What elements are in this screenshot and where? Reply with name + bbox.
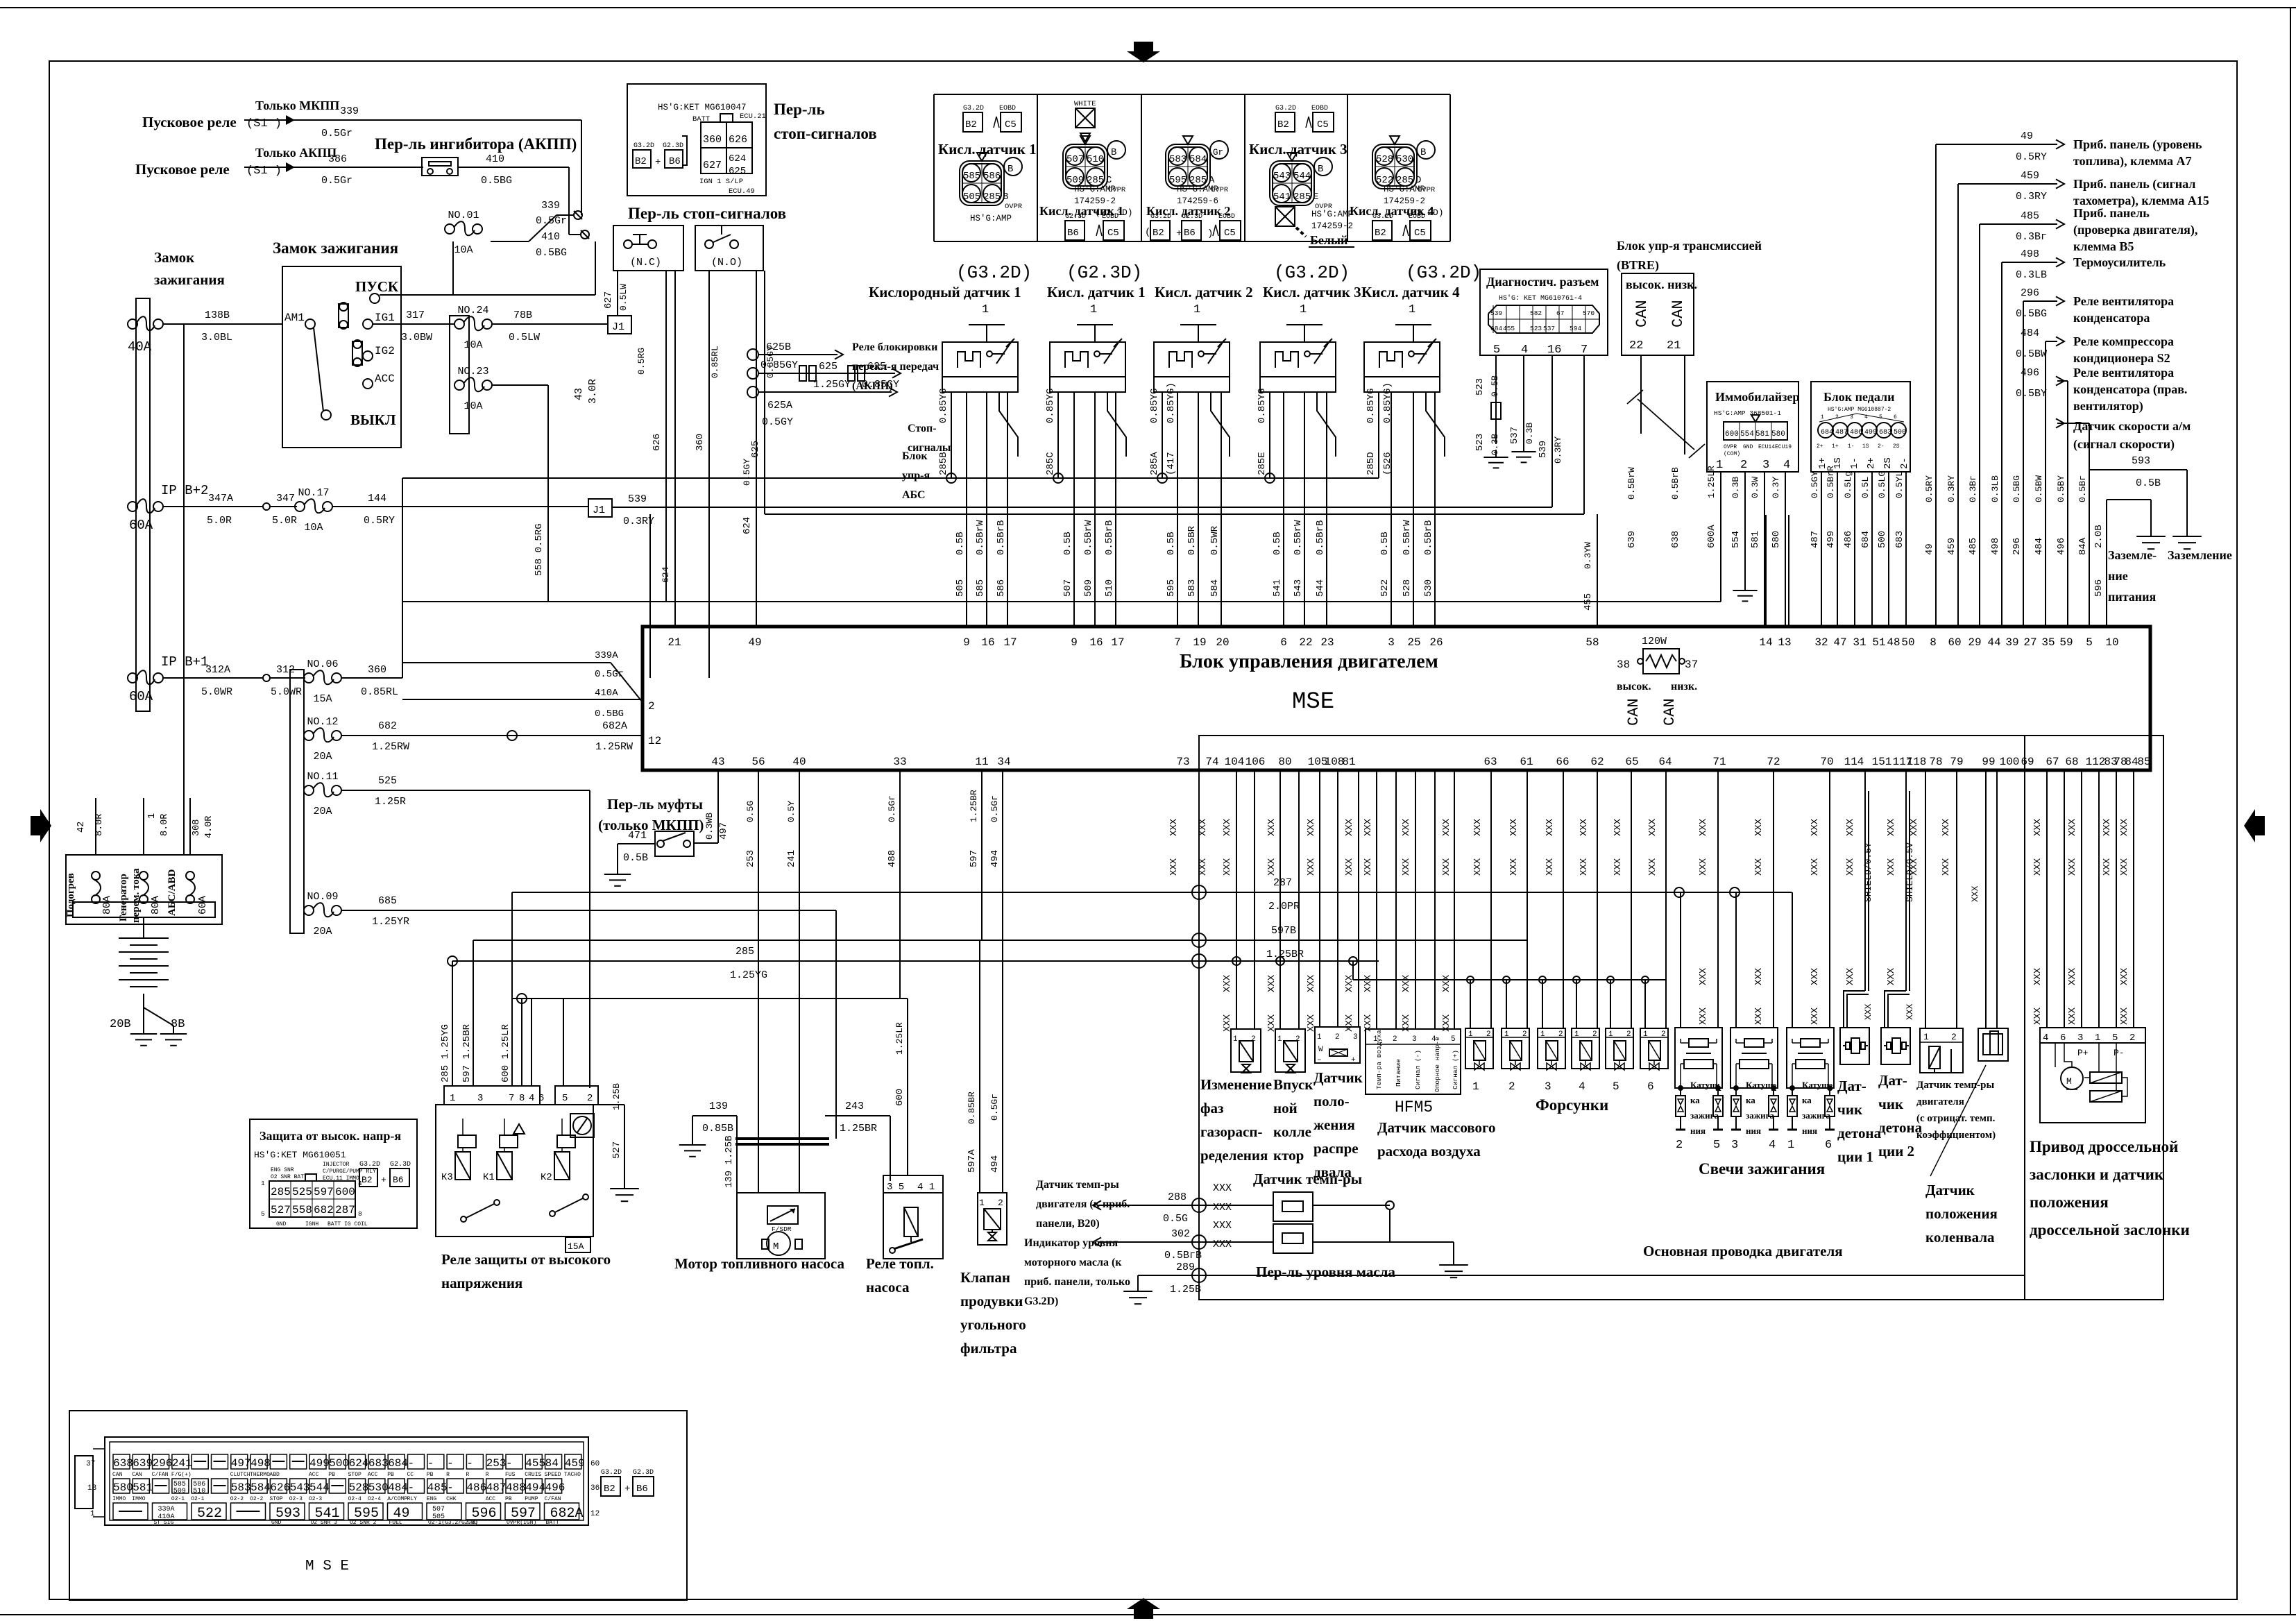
svg-text:347А: 347А [208,493,233,504]
svg-text:10: 10 [2105,636,2118,649]
svg-text:заслонки и датчик: заслонки и датчик [2030,1166,2164,1183]
svg-text:60: 60 [590,1460,599,1468]
svg-text:8.0R: 8.0R [94,814,105,836]
svg-text:1.25RW: 1.25RW [372,741,409,753]
svg-text:0.5BrW: 0.5BrW [1293,520,1304,555]
svg-text:0.85YG: 0.85YG [1045,389,1056,423]
label throttle [2030,1138,2190,1239]
svg-text:Катуш: Катуш [1802,1080,1829,1090]
svg-text:19: 19 [1193,636,1206,649]
svg-text:684: 684 [1490,325,1502,332]
svg-text:ECU14: ECU14 [1758,444,1775,450]
svg-text:питания: питания [2108,590,2157,604]
svg-text:0.3W: 0.3W [1750,477,1760,498]
svg-text:139: 139 [709,1101,728,1112]
label relay blokirovki [852,341,939,392]
wire 1 8.0R [144,798,170,855]
svg-text:3: 3 [2077,1033,2083,1044]
svg-text:539: 539 [1538,441,1549,458]
svg-text:ECU19: ECU19 [1775,444,1792,450]
svg-text:Р-: Р- [2114,1048,2125,1058]
svg-text:56: 56 [751,756,765,768]
svg-text:ABD: ABD [269,1472,280,1478]
label CAN high [1633,300,1651,328]
wire 626 [636,271,666,602]
clutch switch [655,831,694,856]
svg-text:625А: 625А [767,400,792,411]
label G23D 2 [1066,262,1142,283]
svg-text:АБС: АБС [902,489,926,501]
svg-text:507: 507 [432,1506,445,1513]
svg-text:высок.: высок. [1617,681,1651,692]
svg-text:682: 682 [314,1204,334,1216]
wire 139 0.85B [679,1101,737,1157]
svg-text:523: 523 [1474,434,1486,451]
svg-text:114: 114 [1844,756,1864,768]
svg-text:2: 2 [1951,1032,1957,1042]
svg-text:4: 4 [1521,343,1528,357]
fuse NO.01 10A [445,210,482,256]
svg-text:HS'G:AMP: HS'G:AMP [1074,185,1116,194]
svg-text:317: 317 [406,309,425,321]
svg-text:0.5BrВ: 0.5BrВ [1670,467,1681,500]
label only AKPP [255,146,337,160]
svg-text:STOP: STOP [348,1472,362,1478]
svg-text:20A: 20A [313,926,332,937]
svg-text:Основная проводка двигателя: Основная проводка двигателя [1643,1243,1843,1259]
svg-text:486: 486 [1843,531,1854,548]
wire 288 0.5G [1093,1191,1273,1225]
svg-text:(S1 ): (S1 ) [246,117,282,130]
svg-text:624: 624 [742,517,753,534]
svg-text:528: 528 [1402,579,1413,597]
svg-text:Кисл. датчик 3: Кисл. датчик 3 [1249,141,1347,158]
svg-text:1: 1 [1300,303,1307,316]
svg-text:285С: 285С [1045,452,1056,475]
svg-text:Форсунки: Форсунки [1536,1096,1608,1114]
label kisl datchik 1 [1047,284,1146,300]
label diag part no [1499,294,1582,303]
wire 302 0.5BrB [1093,1228,1273,1261]
svg-text:3: 3 [1762,459,1769,472]
svg-text:487: 487 [486,1481,507,1494]
svg-text:84: 84 [545,1457,559,1470]
wire 580 0.3Y [1771,472,1785,627]
svg-text:J1: J1 [593,504,605,516]
svg-text:0.5G: 0.5G [745,801,756,822]
oxygen sensor 5 wires [1379,392,1435,627]
svg-text:2.0В: 2.0В [2093,525,2104,548]
svg-text:ХХХ: ХХХ [1810,818,1821,836]
label HSG AMP 4 [1311,210,1353,231]
label fuel pump [674,1255,844,1272]
svg-text:ХХХ: ХХХ [2032,967,2043,985]
svg-text:моторного масла (к: моторного масла (к [1024,1257,1122,1268]
svg-text:2: 2 [648,700,655,713]
label collector 285А [1149,382,1177,475]
svg-text:0.5BrB: 0.5BrB [1423,520,1434,555]
label MSE pinout [305,1558,349,1574]
svg-text:71: 71 [1712,756,1726,768]
immobilizer pin cells [1724,415,1792,457]
stop signal connector box [627,84,766,196]
svg-text:285Е: 285Е [1257,452,1268,475]
svg-text:0.5B: 0.5B [955,532,966,555]
svg-text:Пер-ль муфты: Пер-ль муфты [607,796,703,813]
label IG2 [375,345,395,357]
svg-text:фильтра: фильтра [960,1340,1017,1357]
svg-text:В: В [1318,164,1323,175]
svg-text:ХХХ: ХХХ [1213,1239,1232,1250]
svg-text:Кисл. датчик 1: Кисл. датчик 1 [1047,284,1146,300]
label only MKPP [255,99,339,112]
injector supply rail [1353,961,1666,983]
svg-text:0.5BG: 0.5BG [2012,475,2022,502]
svg-text:541: 541 [1273,192,1291,203]
oxygen sensor 3 wires [1157,392,1221,627]
svg-text:EOBD: EOBD [1218,213,1235,221]
svg-text:4 1: 4 1 [917,1182,935,1193]
svg-text:100: 100 [2000,756,2020,768]
svg-text:624: 624 [661,566,671,583]
svg-text:8: 8 [358,1210,362,1218]
diagnostic connector box [1480,269,1608,355]
svg-text:ХХХ: ХХХ [1222,818,1233,836]
svg-text:296: 296 [2021,287,2039,299]
svg-text:455: 455 [525,1457,545,1470]
svg-text:ST SIG: ST SIG [154,1520,174,1526]
svg-text:527: 527 [271,1204,291,1216]
svg-text:напряжения: напряжения [441,1275,522,1291]
wire 471 0.5B [604,830,655,886]
svg-text:0.5Lg: 0.5Lg [1843,471,1853,498]
wire intake solenoid pins [1266,770,1299,1032]
svg-text:5: 5 [1451,1035,1456,1044]
svg-text:0.85YG): 0.85YG) [1166,382,1177,423]
svg-text:HS'G:AMP 368501-1: HS'G:AMP 368501-1 [1714,409,1781,417]
svg-text:ХХХ: ХХХ [1905,1003,1915,1020]
svg-text:581: 581 [1750,531,1761,548]
wire 685 1.25YR [341,895,836,1139]
svg-text:Реле компрессора: Реле компрессора [2073,334,2174,348]
svg-text:HS'G:AMP: HS'G:AMP [1177,185,1218,194]
wire 253 0.5G [745,770,758,1193]
svg-text:Термоусилитель: Термоусилитель [2073,255,2166,269]
svg-text:ХХХ: ХХХ [1441,1014,1452,1032]
label clutch switch [598,796,704,833]
svg-text:Датчик: Датчик [1313,1069,1363,1086]
svg-text:Блок: Блок [902,450,928,462]
wire 581 0.3W [1750,472,1764,627]
svg-text:IMMO: IMMO [132,1496,145,1502]
svg-text:285D: 285D [1366,452,1377,475]
svg-text:3.0R: 3.0R [587,379,599,404]
svg-text:638: 638 [113,1457,133,1470]
svg-text:IP B+2: IP B+2 [161,483,208,498]
right middle alignment arrow [2244,809,2265,842]
svg-text:0.5Gг: 0.5Gг [887,795,897,822]
label IP B+2 [161,483,208,498]
svg-text:580: 580 [1771,430,1785,439]
svg-text:541: 541 [1272,579,1283,597]
svg-text:9: 9 [1071,636,1078,649]
camshaft position sensor [1315,1027,1360,1064]
svg-text:40А: 40А [128,339,152,355]
svg-text:20A: 20A [313,751,332,763]
label kislorodny datchik 1 [869,284,1021,300]
svg-text:жения: жения [1313,1116,1355,1133]
svg-text:683: 683 [368,1457,389,1470]
svg-text:O2-3: O2-3 [309,1496,322,1502]
svg-text:коленвала: коленвала [1925,1229,1995,1246]
stop signal pin grid [682,114,752,177]
svg-text:М: М [2066,1076,2072,1087]
label kisl datchik 4 [1361,284,1460,300]
svg-text:Катуш: Катуш [1690,1080,1717,1090]
svg-text:600: 600 [335,1186,355,1198]
svg-text:0.85GY: 0.85GY [760,359,798,371]
ECU 120W resistor [1617,636,1698,674]
svg-text:ХХХ: ХХХ [1909,858,1920,876]
oxygen sensor 1 connector refs [963,105,1021,132]
label PUSK [355,278,399,295]
svg-text:2: 2 [1486,1030,1491,1039]
wire 360 from NO [695,271,720,678]
svg-text:B6: B6 [669,156,681,167]
svg-text:0.5Gr: 0.5Gr [536,215,567,227]
svg-text:339: 339 [541,200,560,212]
label ECU title [1180,651,1438,672]
svg-text:1: 1 [1090,303,1097,316]
ECU left pin 2 [648,700,655,713]
svg-text:0.5WR: 0.5WR [1209,525,1221,555]
svg-text:25: 25 [1407,636,1420,649]
label right Реле компрессора [2073,334,2174,365]
svg-text:ХХХ: ХХХ [1266,858,1277,876]
svg-text:4: 4 [1769,1139,1776,1152]
immobilizer pin numbers [1716,459,1790,472]
svg-text:Пусковое реле: Пусковое реле [142,114,237,130]
svg-text:0.5Gr: 0.5Gr [321,128,352,139]
oxygen sensor 2 wires [1053,392,1116,627]
purge valve solenoid [984,1209,1001,1241]
MSE pinout outer box [69,1411,687,1600]
wire 138B 3.0BL [163,309,282,343]
svg-text:2: 2 [1522,1030,1527,1039]
svg-text:0.5BrW: 0.5BrW [975,520,986,555]
svg-text:HS'G: KET MG610761-4: HS'G: KET MG610761-4 [1499,294,1582,303]
svg-text:51: 51 [1872,636,1885,649]
svg-text:ния: ния [1746,1125,1761,1136]
wire bus 741 [765,513,1584,515]
svg-text:13: 13 [1778,636,1791,649]
svg-text:0.3В: 0.3В [1524,423,1535,444]
oxygen sensor 4 white box [1275,207,1354,247]
svg-text:2: 2 [1558,1030,1563,1039]
fuse NO.09 20A [304,891,341,937]
wire 78B 0.5LW [492,309,608,343]
svg-text:панели, В20): панели, В20) [1036,1218,1100,1230]
svg-text:0.5GY: 0.5GY [742,459,752,486]
wire 241 0.5Y [786,770,799,1193]
label svechi [1699,1160,1825,1178]
svg-text:2S: 2S [1882,457,1894,469]
svg-text:С5: С5 [1005,119,1017,130]
label Kisl datchik 3 (box) [1249,141,1347,158]
wire 558 0.5RG [534,523,545,576]
knock sensors [1840,770,1910,1064]
svg-text:49: 49 [2021,130,2033,142]
oxygen sensor 2 connector [1063,136,1126,194]
svg-text:0.85GY: 0.85GY [862,379,899,391]
svg-text:ХХХ: ХХХ [1472,818,1483,836]
fuse IP B+2 60A [128,499,163,533]
wire right arrow 498 [2002,248,2064,627]
wire 42 8.0R [76,798,105,855]
svg-text:ХХХ: ХХХ [1266,818,1277,836]
svg-text:Привод дроссельной: Привод дроссельной [2030,1138,2178,1155]
svg-text:NO.24: NO.24 [457,305,488,316]
svg-text:ределения: ределения [1200,1147,1268,1164]
oxygen sensor 1 wires [946,392,1007,627]
svg-text:ХХХ: ХХХ [1579,858,1590,876]
connector J1 (ign) [608,316,631,334]
diag pin numbers [1493,343,1588,357]
svg-text:682А: 682А [602,720,627,732]
bottom center alignment arrow [1127,1598,1160,1619]
svg-text:49: 49 [748,636,761,649]
svg-text:Индикатор уровня: Индикатор уровня [1024,1237,1118,1249]
oxygen sensor 1 connector [960,153,1023,223]
svg-text:(N.C): (N.C) [630,257,661,269]
svg-text:459: 459 [1946,538,1957,555]
wire 597B 1.25BR [473,925,1527,960]
oxygen sensor 2 refs [1065,213,1124,240]
label zazemlenie [2168,548,2232,562]
svg-text:120W: 120W [1642,636,1667,647]
svg-text:0.85YG: 0.85YG [1149,389,1160,423]
svg-text:ХХХ: ХХХ [1698,818,1709,836]
svg-text:Датчик темп-ры: Датчик темп-ры [1036,1179,1119,1191]
svg-text:(проверка двигателя),: (проверка двигателя), [2073,223,2197,237]
svg-text:NO.12: NO.12 [307,716,338,728]
label G32D 4 [1406,262,1481,283]
svg-text:285: 285 [735,946,754,958]
svg-text:G3.2D: G3.2D [1275,105,1296,112]
svg-text:ХХХ: ХХХ [1213,1182,1232,1194]
labels sensor 1 wires [955,520,1007,597]
svg-text:C/FAN: C/FAN [152,1472,169,1478]
wire 339A 410A sources [402,602,403,663]
svg-text:PB: PB [427,1472,434,1478]
label mass air flow [1377,1119,1496,1159]
labels sensor 3 wires [1166,525,1221,597]
svg-text:Датчик: Датчик [1925,1182,1975,1198]
pedal pin names [1817,457,1910,469]
svg-text:В2: В2 [1375,228,1386,239]
label temp to panel [1036,1179,1130,1230]
svg-text:638: 638 [1670,531,1681,548]
svg-text:Дат-: Дат- [1837,1078,1866,1094]
wire 494 0.5Gr [989,770,1003,1193]
svg-text:ХХХ: ХХХ [1810,967,1821,985]
svg-text:537: 537 [1543,325,1555,332]
svg-text:приб. панели, только: приб. панели, только [1024,1276,1130,1288]
svg-text:ХХХ: ХХХ [1886,967,1897,985]
svg-text:ХХХ: ХХХ [1306,858,1317,876]
svg-text:584: 584 [1189,154,1207,165]
svg-text:ВЫКЛ: ВЫКЛ [350,411,396,428]
label stop switch title below [628,205,786,222]
label 494 low [989,1094,1001,1173]
svg-text:104: 104 [1225,756,1245,768]
svg-text:Заземле-: Заземле- [2108,548,2157,562]
svg-text:низк.: низк. [1671,681,1697,692]
svg-text:–: – [1317,1056,1322,1064]
svg-text:32: 32 [1814,636,1828,649]
svg-text:ХХХ: ХХХ [1222,974,1233,992]
label protection part [254,1150,346,1160]
svg-text:3.0BW: 3.0BW [401,332,432,343]
svg-text:G2.3D: G2.3D [1065,213,1086,221]
svg-text:CAN: CAN [1661,698,1678,726]
wire 597A 0.85BR [967,940,980,1193]
svg-text:Кисл. датчик 3: Кисл. датчик 3 [1263,284,1361,300]
svg-text:16: 16 [1089,636,1103,649]
svg-text:106: 106 [1245,756,1266,768]
fuel relay header [883,1175,943,1193]
svg-text:580: 580 [113,1481,133,1494]
label zazemlenie pitania [2108,548,2157,604]
svg-text:ка: ка [1746,1095,1755,1105]
label oil level switch [1256,1264,1395,1280]
svg-text:530: 530 [1423,579,1434,597]
svg-text:2: 2 [1335,1033,1340,1042]
label immobilizer [1715,390,1799,404]
fuel relay contact [890,1237,923,1253]
svg-text:522: 522 [1379,579,1391,597]
svg-text:Приб. панель (уровень: Приб. панель (уровень [2073,137,2202,152]
svg-text:Питание: Питание [1395,1059,1402,1087]
svg-text:3: 3 [1353,1033,1358,1042]
svg-text:Е: Е [1313,192,1318,203]
svg-text:OVPR: OVPR [1005,203,1023,211]
svg-text:EOBD: EOBD [1409,213,1425,221]
svg-text:287: 287 [335,1204,355,1216]
svg-text:81: 81 [1342,756,1355,768]
svg-text:В6: В6 [636,1484,648,1495]
wire 347A 5.0R [163,493,262,527]
svg-text:10A: 10A [454,244,473,256]
svg-text:+: + [624,1484,630,1495]
svg-text:1.25BR: 1.25BR [1266,949,1304,960]
svg-text:Иммобилайзер: Иммобилайзер [1715,390,1799,404]
wire right arrow 496 [2016,367,2068,627]
svg-text:К3: К3 [441,1172,453,1183]
svg-text:241: 241 [172,1457,192,1470]
svg-text:20: 20 [1216,636,1229,649]
svg-text:1: 1 [1923,1032,1929,1042]
svg-text:5: 5 [562,1093,568,1104]
wire 596 2.0B [2093,500,2151,627]
fuse NO.24 10A [450,305,492,434]
svg-text:ции 1: ции 1 [1837,1148,1873,1165]
svg-text:ХХХ: ХХХ [2032,818,2043,836]
label right Датчик скорости а/ [2073,419,2191,452]
svg-text:Только МКПП: Только МКПП [255,99,339,112]
svg-text:3: 3 [1731,1139,1738,1152]
svg-text:15A: 15A [313,693,332,705]
